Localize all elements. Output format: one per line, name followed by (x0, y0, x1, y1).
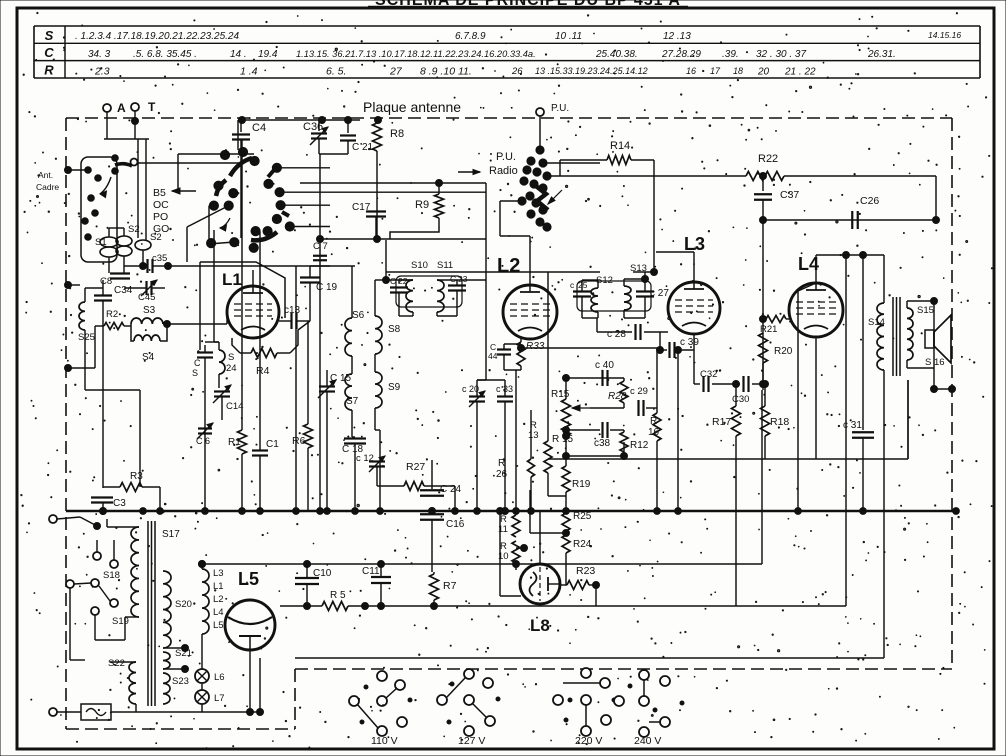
svg-text:19.4: 19.4 (258, 49, 278, 60)
svg-text:R17: R17 (712, 416, 731, 428)
svg-text:C1: C1 (266, 439, 279, 450)
svg-text:18: 18 (733, 66, 743, 76)
svg-text:R9: R9 (415, 199, 429, 211)
svg-text:C: C (390, 276, 396, 286)
svg-text:C 19: C 19 (316, 282, 338, 293)
svg-text:Ant.: Ant. (38, 170, 53, 180)
svg-text:14.15.16: 14.15.16 (928, 30, 961, 40)
svg-text:L4: L4 (213, 607, 224, 618)
svg-text:32 . 30 . 37: 32 . 30 . 37 (756, 49, 806, 60)
svg-text:10 .11: 10 .11 (555, 31, 582, 42)
svg-text:C34: C34 (114, 285, 133, 296)
svg-text:S11: S11 (437, 260, 453, 271)
svg-text:C: C (450, 274, 456, 284)
svg-text:26: 26 (511, 66, 523, 77)
svg-text:R19: R19 (572, 479, 591, 490)
svg-text:12 .13: 12 .13 (663, 31, 691, 42)
svg-text:L7: L7 (214, 693, 225, 704)
svg-text:L5: L5 (238, 569, 259, 589)
svg-text:R2: R2 (106, 309, 118, 320)
svg-text:R18: R18 (770, 416, 789, 428)
svg-text:C26: C26 (860, 195, 879, 207)
svg-text:C 7: C 7 (313, 241, 328, 252)
svg-text:C17: C17 (352, 202, 371, 213)
svg-text:14 .: 14 . (230, 49, 247, 60)
svg-text:25.40.38.: 25.40.38. (595, 49, 638, 60)
svg-text:6.7.8.9: 6.7.8.9 (455, 31, 486, 42)
svg-text:Plaque antenne: Plaque antenne (363, 99, 461, 115)
svg-text:S23: S23 (172, 676, 189, 687)
svg-text:25: 25 (578, 280, 588, 290)
svg-text:13 .15.33.19.23.24.25.14.12: 13 .15.33.19.23.24.25.14.12 (535, 66, 648, 76)
svg-text:127 V: 127 V (458, 735, 485, 747)
svg-text:B5: B5 (153, 187, 166, 199)
svg-text:.5. 6.8. 35.45 .: .5. 6.8. 35.45 . (133, 49, 197, 60)
svg-text:C36: C36 (303, 121, 323, 133)
svg-text:c 39: c 39 (680, 337, 699, 348)
svg-text:L3: L3 (684, 234, 705, 254)
svg-text:R27: R27 (406, 461, 425, 473)
svg-text:24: 24 (226, 363, 237, 374)
svg-text:S18: S18 (103, 570, 120, 581)
svg-text:c 12: c 12 (356, 453, 374, 464)
svg-text:C11: C11 (362, 566, 380, 577)
svg-text:R1: R1 (228, 437, 241, 448)
svg-text:C3: C3 (113, 498, 126, 509)
svg-text:c35: c35 (152, 253, 167, 264)
svg-text:c 29: c 29 (630, 386, 648, 397)
svg-text:C30: C30 (732, 394, 749, 405)
svg-text:44: 44 (488, 351, 498, 361)
svg-text:C 6: C 6 (196, 436, 210, 446)
svg-text:T: T (148, 100, 156, 114)
svg-text:1.13.15. 36.21.7.13 .10.17.18.: 1.13.15. 36.21.7.13 .10.17.18.12.11.22.2… (296, 49, 536, 59)
svg-text:S: S (192, 368, 198, 378)
svg-text:R14: R14 (610, 140, 630, 152)
svg-text:c 31: c 31 (843, 420, 862, 431)
svg-text:R8: R8 (390, 128, 404, 140)
svg-text:S6: S6 (352, 310, 365, 321)
svg-text:26: 26 (496, 469, 508, 480)
svg-text:S10: S10 (411, 260, 428, 271)
svg-text:c 40: c 40 (595, 360, 614, 371)
svg-text:C: C (44, 45, 54, 60)
svg-text:8 .9 .10 11.: 8 .9 .10 11. (420, 66, 472, 78)
svg-text:Radio: Radio (489, 165, 518, 177)
svg-text:PO: PO (153, 211, 168, 223)
svg-text:L2: L2 (213, 594, 224, 605)
svg-text:11: 11 (498, 524, 508, 535)
svg-text:S: S (228, 352, 234, 363)
svg-text:L5: L5 (213, 620, 224, 631)
svg-text:10: 10 (498, 551, 509, 562)
svg-text:R23: R23 (576, 565, 595, 577)
svg-text:S3: S3 (143, 305, 156, 316)
svg-text:C45: C45 (138, 292, 155, 303)
svg-text:S17: S17 (162, 529, 180, 540)
svg-text:21 . 22: 21 . 22 (784, 67, 816, 78)
svg-text:S: S (45, 28, 54, 43)
svg-text:S4: S4 (142, 352, 155, 363)
svg-text:C 24: C 24 (440, 484, 462, 495)
svg-text:L3: L3 (213, 568, 224, 579)
svg-text:R25: R25 (573, 511, 592, 522)
svg-text:C16: C16 (446, 519, 465, 530)
svg-text:S20: S20 (175, 599, 192, 610)
svg-text:23: 23 (458, 274, 468, 284)
svg-text:34. 3: 34. 3 (88, 49, 111, 60)
svg-text:R24: R24 (573, 539, 592, 550)
svg-text:R12: R12 (630, 440, 649, 451)
svg-text:110 V: 110 V (371, 735, 398, 747)
svg-text:c38: c38 (594, 438, 611, 449)
svg-text:220 V: 220 V (575, 735, 602, 747)
svg-text:R3: R3 (130, 471, 143, 482)
svg-text:27: 27 (389, 66, 403, 78)
svg-text:R 5: R 5 (330, 590, 346, 601)
svg-text:S15: S15 (917, 305, 934, 316)
svg-text:C 21: C 21 (352, 142, 374, 153)
svg-text:13: 13 (528, 430, 539, 441)
svg-text:C4: C4 (252, 122, 266, 134)
svg-text:S25: S25 (78, 332, 95, 343)
svg-text:P.U.: P.U. (496, 151, 516, 163)
svg-text:L1: L1 (222, 270, 242, 289)
svg-text:R4: R4 (256, 365, 270, 377)
svg-text:R28: R28 (608, 391, 627, 402)
svg-text:L8: L8 (530, 616, 550, 635)
svg-text:1 .4: 1 .4 (240, 66, 258, 78)
svg-text:P.U.: P.U. (551, 103, 569, 114)
svg-text:S22: S22 (108, 658, 125, 669)
svg-text:20: 20 (757, 67, 770, 78)
svg-text:R: R (44, 63, 54, 78)
svg-text:A: A (117, 101, 126, 115)
svg-text:R20: R20 (774, 346, 793, 357)
svg-text:S 16: S 16 (925, 357, 945, 368)
svg-text:16: 16 (686, 66, 696, 76)
svg-text:OC: OC (153, 199, 169, 211)
svg-text:c 27: c 27 (650, 288, 669, 299)
svg-text:C37: C37 (780, 189, 799, 201)
svg-text:L2: L2 (497, 255, 520, 277)
svg-text:C14: C14 (226, 401, 243, 412)
svg-text:6. 5.: 6. 5. (326, 66, 346, 78)
svg-text:R33: R33 (526, 341, 545, 352)
svg-text:Cadre: Cadre (36, 182, 59, 192)
svg-text:R7: R7 (443, 580, 457, 592)
svg-text:C8: C8 (100, 276, 112, 287)
svg-text:S9: S9 (388, 382, 401, 393)
svg-text:C: C (194, 358, 201, 368)
svg-text:240 V: 240 V (634, 735, 661, 747)
svg-text:L6: L6 (214, 672, 225, 683)
svg-text:C32: C32 (700, 369, 717, 380)
svg-text:26.31.: 26.31. (867, 49, 896, 60)
svg-text:S8: S8 (388, 324, 401, 335)
svg-text:R22: R22 (758, 153, 778, 165)
svg-text:17: 17 (710, 66, 721, 76)
svg-text:.39.: .39. (722, 49, 739, 60)
svg-text:S2: S2 (128, 224, 140, 235)
svg-text:R6: R6 (292, 435, 306, 447)
svg-text:. 1.2.3.4 .17.18.19.20.21.22.2: . 1.2.3.4 .17.18.19.20.21.22.23.25.24 (75, 31, 239, 42)
svg-text:C10: C10 (313, 568, 332, 579)
svg-text:27.28.29: 27.28.29 (661, 49, 701, 60)
